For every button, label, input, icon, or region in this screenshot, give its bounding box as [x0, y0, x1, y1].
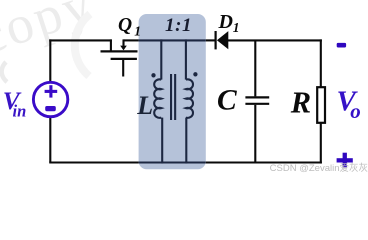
svg-text:L: L: [136, 91, 153, 120]
svg-text:C: C: [217, 84, 237, 116]
svg-text:Q: Q: [118, 15, 132, 36]
svg-text:CSDN @Zevalin爱灰灰: CSDN @Zevalin爱灰灰: [270, 162, 368, 174]
svg-text:1: 1: [233, 20, 240, 35]
svg-text:D: D: [218, 11, 233, 33]
svg-text:R: R: [290, 86, 311, 120]
svg-text:1:1: 1:1: [165, 15, 192, 36]
svg-text:in: in: [13, 102, 27, 121]
svg-text:o: o: [350, 99, 361, 123]
svg-text:1: 1: [134, 23, 141, 38]
